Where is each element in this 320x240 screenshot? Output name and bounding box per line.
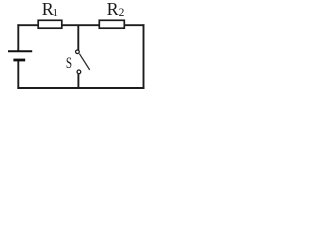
switch S bottom terminal circle	[77, 70, 81, 74]
wire left lower	[17, 61, 19, 89]
battery B1 long plate (positive)	[8, 50, 32, 52]
resistor R1	[38, 20, 62, 28]
switch S top terminal circle	[76, 50, 80, 54]
switch S blade	[79, 54, 89, 70]
svg-text:1: 1	[53, 7, 59, 19]
wire switch branch upper	[77, 25, 79, 50]
wire bottom	[17, 87, 144, 89]
svg-text:R: R	[107, 0, 119, 19]
label R2	[107, 0, 125, 19]
svg-text:2: 2	[119, 7, 125, 19]
svg-text:S: S	[66, 53, 72, 72]
label R1	[42, 0, 58, 19]
wire right	[143, 24, 145, 89]
wire switch branch lower	[77, 74, 79, 88]
wire top	[17, 24, 144, 26]
battery B1 short plate (negative)	[13, 59, 25, 62]
resistor R2	[99, 20, 124, 28]
label S	[66, 53, 72, 72]
wire left upper	[17, 24, 19, 50]
